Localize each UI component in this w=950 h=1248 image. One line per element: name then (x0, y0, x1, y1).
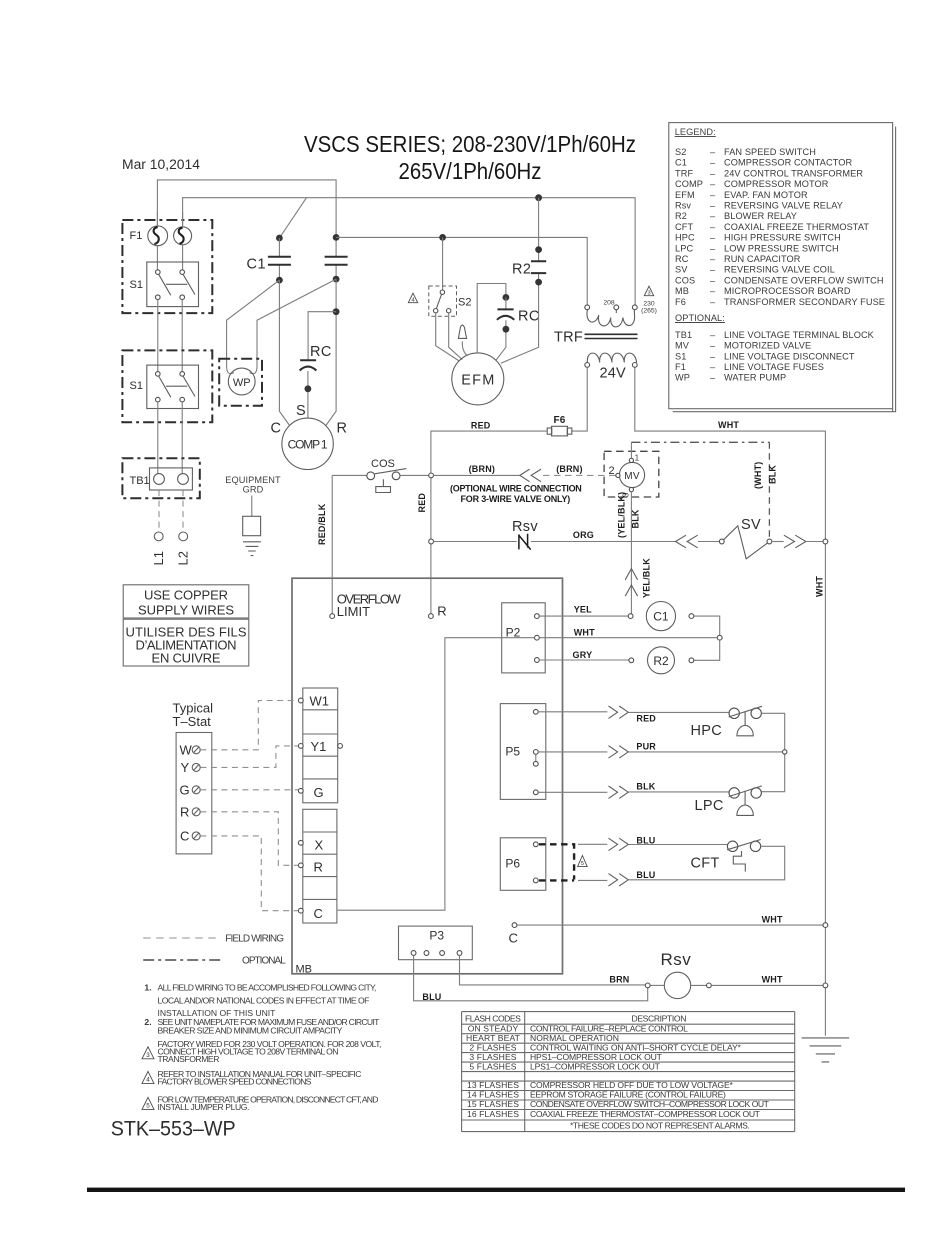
svg-text:ORG: ORG (573, 530, 594, 540)
contactor C1 pole a (268, 238, 291, 284)
transformer core (585, 334, 638, 338)
node L1 (154, 532, 163, 541)
pin P3-4 (457, 951, 462, 956)
svg-text:(BRN): (BRN) (556, 464, 583, 474)
wire ORG left (434, 541, 517, 543)
transformer TRF primary (585, 305, 637, 327)
field wire C (200, 836, 298, 911)
note triangle 5 (142, 1097, 154, 1109)
legend box (669, 123, 896, 412)
svg-text:COMP–COMPRESSOR MOTOR: COMP–COMPRESSOR MOTOR (675, 179, 829, 189)
pin P3-1 (411, 951, 416, 956)
svg-text:4: 4 (146, 1077, 150, 1084)
coil SV (724, 526, 768, 559)
node C common (512, 923, 517, 928)
node G (298, 788, 303, 793)
svg-text:265V/1Ph/60Hz: 265V/1Ph/60Hz (399, 158, 542, 184)
wire TRF secondary left to F6 (572, 367, 587, 431)
svg-text:EFM: EFM (461, 373, 494, 389)
wire L1 top run (157, 180, 336, 257)
wire C1a to COMP C (279, 280, 289, 425)
node R2 coil left (629, 658, 634, 663)
svg-text:(265): (265) (641, 308, 657, 315)
node WHT-SV junction (823, 539, 828, 544)
wire BLU2 P6 (578, 846, 785, 880)
svg-text:2.: 2. (144, 1017, 151, 1027)
svg-text:F1: F1 (130, 230, 143, 242)
svg-text:(BRN): (BRN) (469, 464, 496, 474)
water pump box (219, 359, 262, 406)
svg-text:WHT: WHT (762, 914, 783, 924)
svg-text:WP: WP (233, 377, 251, 389)
svg-text:CFT: CFT (691, 856, 720, 872)
connector P6 (500, 838, 546, 891)
note triangle 4 (142, 1071, 154, 1083)
svg-text:LPS1–COMPRESSOR LOCK OUT: LPS1–COMPRESSOR LOCK OUT (530, 1061, 661, 1071)
svg-text:BLK: BLK (768, 465, 778, 484)
connector P3 (399, 926, 473, 960)
svg-text:STK–553–WP: STK–553–WP (111, 1118, 236, 1141)
field wire W (200, 701, 298, 750)
node C1 coil right (689, 614, 694, 619)
svg-text:INSTALL JUMPER PLUG.: INSTALL JUMPER PLUG. (158, 1102, 250, 1112)
wire optional WHT dashed vertical (768, 442, 770, 539)
wire L2 fuse top (182, 212, 184, 226)
legend items (675, 147, 885, 383)
wire BLU from P3 (414, 955, 648, 1000)
utiliser des fils box (123, 619, 249, 666)
water pump WP (228, 368, 255, 395)
svg-text:5: 5 (581, 861, 584, 867)
svg-text:(YEL/BLK): (YEL/BLK) (617, 492, 627, 538)
svg-text:C: C (180, 829, 189, 844)
node R2 tap (535, 194, 542, 201)
pin P5-4 (533, 790, 538, 795)
node C1a top (276, 235, 283, 242)
connector P5 (500, 704, 546, 800)
node R2 coil right (689, 658, 694, 663)
splice arrows BLU2 (609, 874, 629, 886)
svg-text:OPTIONAL:: OPTIONAL: (675, 313, 725, 323)
wire ORG middle (531, 541, 676, 543)
wire line4 to TRF primary (336, 237, 587, 305)
terminal block TB1 (122, 458, 199, 498)
motorized valve MV (619, 462, 644, 487)
node Y1 right (338, 744, 343, 749)
wire GRY (539, 659, 629, 661)
wire EFM top to RC2 (477, 284, 506, 353)
wire WHT from P2 (539, 637, 717, 639)
svg-text:S1: S1 (130, 279, 143, 291)
field wire G (200, 789, 298, 791)
svg-text:LOCAL AND/OR NATIONAL CODES IN: LOCAL AND/OR NATIONAL CODES IN EFFECT AT… (158, 995, 370, 1005)
wire TB1 to L1 dashed (158, 490, 160, 532)
svg-text:Y1: Y1 (311, 739, 327, 754)
node Y1 left (298, 744, 303, 749)
svg-text:S: S (296, 403, 306, 419)
evaporator fan motor EFM (452, 353, 504, 405)
terminal strip lower (303, 809, 337, 923)
svg-text:BLU: BLU (422, 992, 441, 1002)
pin P2-1 (535, 614, 540, 619)
node L2 (179, 532, 188, 541)
svg-text:BREAKER SIZE AND MINIMUM CIRCU: BREAKER SIZE AND MINIMUM CIRCUIT AMPACIT… (158, 1026, 343, 1036)
node Rsv right (707, 983, 712, 988)
svg-text:EEPROM STORAGE FAILURE (CONTRO: EEPROM STORAGE FAILURE (CONTROL FAILURE) (530, 1090, 726, 1100)
coil R2 (648, 647, 675, 674)
svg-text:L1: L1 (151, 551, 166, 565)
wire to equipment ground (251, 496, 253, 517)
splice arrows YEL/BLK up (625, 569, 637, 597)
svg-text:RED/BLK: RED/BLK (317, 503, 327, 545)
svg-text:LIMIT: LIMIT (337, 604, 370, 619)
svg-text:COAXIAL FREEZE THERMOSTAT–COMP: COAXIAL FREEZE THERMOSTAT–COMPRESSOR LOC… (530, 1109, 761, 1119)
svg-text:SV: SV (741, 517, 761, 533)
note 2 (144, 1017, 380, 1035)
connector P2 (502, 603, 546, 673)
pin P5-3 stub (535, 754, 537, 761)
svg-text:R: R (314, 860, 323, 875)
equipment ground block (243, 516, 261, 535)
svg-text:FLASH CODES: FLASH CODES (465, 1014, 521, 1024)
wire F6 to RED vertical (431, 431, 547, 614)
transformer TRF secondary (585, 353, 637, 367)
svg-text:TB1: TB1 (130, 475, 150, 487)
svg-text:Mar 10,2014: Mar 10,2014 (122, 157, 200, 172)
splice arrows BLU1 (609, 838, 629, 850)
svg-text:VSCS SERIES; 208-230V/1Ph/60Hz: VSCS SERIES; 208-230V/1Ph/60Hz (304, 131, 636, 157)
field wire Y (200, 746, 298, 768)
svg-text:P3: P3 (429, 929, 444, 943)
wire TB1 to L2 dashed (182, 490, 184, 532)
svg-text:WHT: WHT (574, 628, 595, 638)
svg-text:C1: C1 (247, 257, 267, 273)
wire MV pin1 up (630, 442, 632, 458)
svg-text:GRY: GRY (573, 650, 593, 660)
wire HPC right down (761, 713, 784, 791)
wire S1 lower to TB1 left (157, 402, 159, 474)
node R terminal (429, 614, 434, 619)
svg-text:WHT: WHT (762, 974, 783, 984)
tstat terminal R (180, 805, 200, 820)
svg-text:3 FLASHES: 3 FLASHES (469, 1052, 516, 1062)
svg-text:(WHT): (WHT) (753, 462, 763, 490)
svg-text:RED: RED (471, 420, 491, 430)
wire RED/BLK to overflow limit (331, 475, 333, 613)
svg-text:5 FLASHES: 5 FLASHES (469, 1061, 516, 1071)
svg-text:C: C (271, 421, 281, 437)
condensate overflow switch COS (332, 469, 429, 493)
svg-text:RC: RC (310, 344, 332, 360)
node COS-RED junction (429, 473, 434, 478)
warning triangle 4 at S2 (408, 293, 417, 303)
svg-text:3: 3 (647, 291, 650, 297)
node Rsv left (645, 983, 650, 988)
svg-text:BLK: BLK (631, 509, 641, 528)
node C-WHT junction (823, 923, 828, 928)
svg-text:S1: S1 (130, 380, 143, 392)
thermostat box (176, 733, 212, 854)
warning triangle 5 at P6 (578, 856, 588, 868)
tstat terminal W (180, 743, 201, 758)
wire S2 left to EFM (436, 313, 460, 361)
capacitor RC fan (496, 294, 514, 360)
svg-text:ON STEADY: ON STEADY (468, 1023, 519, 1033)
pin 2 MV (616, 473, 620, 477)
field wiring key (143, 937, 218, 939)
svg-text:EQUIPMENT: EQUIPMENT (225, 475, 281, 485)
svg-text:Y: Y (181, 760, 190, 775)
note triangle 3 (142, 1047, 154, 1059)
svg-text:PUR: PUR (636, 742, 656, 752)
splice arrows RED (609, 706, 629, 718)
wire fuse F1b to S1 (182, 245, 184, 270)
node R strip (298, 863, 303, 868)
wire C1a to WP left (227, 280, 280, 374)
node C strip (298, 908, 303, 913)
svg-text:T–Stat: T–Stat (173, 714, 212, 729)
svg-text:YEL: YEL (574, 605, 592, 615)
svg-text:CONTROL FAILURE–REPLACE CONTRO: CONTROL FAILURE–REPLACE CONTROL (530, 1023, 688, 1033)
node SV right (767, 539, 772, 544)
svg-text:R: R (437, 604, 446, 619)
relay contact Rsv (519, 534, 531, 550)
pin P6-2 (533, 878, 538, 883)
wire BRN from P3 (460, 955, 646, 985)
tstat terminal C (180, 829, 200, 844)
optional key (143, 959, 222, 961)
node bridge-WHT junction (717, 635, 722, 640)
svg-text:YEL/BLK: YEL/BLK (642, 558, 652, 598)
use copper supply wires box (123, 585, 249, 618)
svg-text:15 FLASHES: 15 FLASHES (467, 1099, 519, 1109)
disconnect box F1/S1 (122, 220, 212, 313)
terminal strip upper (303, 688, 338, 803)
capacitor RC compressor (300, 312, 337, 419)
disconnect box S1 lower (122, 350, 212, 422)
wire C1 to bridge (694, 616, 720, 638)
svg-text:HPS1–COMPRESSOR LOCK OUT: HPS1–COMPRESSOR LOCK OUT (530, 1052, 663, 1062)
pin P3-3 (440, 951, 445, 956)
wire Rsv to WHT vertical (711, 984, 823, 986)
pin P3-2 (424, 951, 429, 956)
svg-text:2 FLASHES: 2 FLASHES (469, 1042, 516, 1052)
wire C1a diagonal to L2 run (279, 198, 306, 238)
svg-text:CONTROL WAITING ON ANTI–SHORT: CONTROL WAITING ON ANTI–SHORT CYCLE DELA… (530, 1042, 742, 1052)
wire BLU1 P6 (578, 843, 727, 845)
flash codes table (462, 1012, 795, 1132)
splice arrows ORG (675, 535, 697, 548)
compressor motor COMP 1 (282, 418, 333, 469)
warning triangle 3 at TRF (644, 286, 653, 296)
splice arrows WHT right (784, 535, 806, 548)
svg-text:C: C (314, 906, 323, 921)
wire PUR P5 (538, 751, 782, 753)
wire to S2 (442, 237, 444, 290)
svg-text:R: R (337, 421, 347, 437)
pin P5-1 (533, 709, 538, 714)
svg-text:R: R (180, 805, 189, 820)
node W1 (298, 698, 303, 703)
svg-text:1: 1 (635, 453, 640, 463)
relay coil Rsv (664, 972, 690, 998)
svg-text:FOR 3-WIRE VALVE ONLY): FOR 3-WIRE VALVE ONLY) (461, 494, 571, 504)
svg-text:BLU: BLU (636, 870, 655, 880)
wire MV pin3 down (630, 492, 632, 614)
ground symbol equipment (243, 542, 261, 556)
svg-text:*THESE CODES DO NOT REPRESENT: *THESE CODES DO NOT REPRESENT ALARMS. (570, 1121, 750, 1131)
pin P5-2 (533, 750, 538, 755)
svg-text:COS: COS (371, 458, 395, 470)
wire YEL (539, 615, 628, 617)
svg-text:F6: F6 (554, 415, 566, 426)
node C1 coil left (628, 614, 633, 619)
svg-text:208: 208 (603, 300, 615, 307)
freeze thermostat CFT (727, 840, 761, 872)
wire to Rsv coil (650, 984, 664, 986)
svg-text:W1: W1 (310, 694, 330, 709)
svg-text:S2: S2 (458, 297, 471, 309)
svg-text:Rsv: Rsv (512, 519, 538, 535)
switch S1 upper (147, 262, 199, 307)
svg-text:5: 5 (146, 1103, 150, 1110)
svg-text:4: 4 (411, 298, 414, 304)
bottom rule (87, 1188, 905, 1192)
svg-text:(OPTIONAL WIRE CONNECTION: (OPTIONAL WIRE CONNECTION (450, 484, 582, 494)
svg-text:WHT: WHT (718, 420, 739, 430)
svg-text:RED: RED (417, 493, 427, 513)
coil C1 (646, 602, 675, 631)
node S2 tap (439, 234, 446, 241)
node C1b top (333, 234, 340, 241)
pin P2-2 (535, 635, 540, 640)
pin 3 MV (629, 488, 633, 492)
svg-text:Rsv: Rsv (661, 950, 692, 969)
wire splice to WHT vertical (806, 541, 823, 543)
svg-text:HPC: HPC (691, 723, 723, 739)
wire optional WHT dash-dot top (631, 441, 769, 443)
tstat terminal Y (181, 760, 201, 775)
svg-text:TRF: TRF (554, 330, 583, 346)
splice arrows BLK (609, 786, 629, 798)
wire BLK P5 (538, 791, 729, 793)
svg-text:C: C (509, 931, 518, 946)
svg-text:3: 3 (146, 1052, 150, 1059)
wire optional BRN solid (434, 474, 520, 476)
node X (298, 840, 303, 845)
microprocessor board MB box (292, 578, 563, 974)
svg-text:FIELD WIRING: FIELD WIRING (225, 934, 284, 945)
pressure switch HPC (729, 706, 762, 736)
jumper plug dashed (539, 844, 574, 880)
pressure switch LPC (729, 786, 762, 816)
svg-text:RC: RC (518, 309, 540, 325)
motorized valve box (604, 451, 659, 497)
wire WHT into board (338, 638, 535, 911)
svg-text:COMP 1: COMP 1 (288, 438, 328, 452)
speed tap plug (458, 325, 466, 338)
svg-text:COMPRESSOR HELD OFF DUE TO LOW: COMPRESSOR HELD OFF DUE TO LOW VOLTAGE* (530, 1080, 734, 1090)
field wire R (200, 812, 298, 866)
wire S2 right to EFM (449, 313, 463, 360)
wire L1 fuse top (156, 212, 158, 226)
fuse F1b (174, 227, 192, 245)
wire SV to splice (772, 541, 784, 543)
svg-text:13 FLASHES: 13 FLASHES (467, 1080, 519, 1090)
svg-text:230: 230 (643, 301, 655, 308)
svg-text:C1: C1 (653, 610, 669, 624)
pin P2-3 (535, 658, 540, 663)
note 1 (144, 982, 376, 1018)
wire ORG to SV (698, 541, 720, 543)
svg-text:BRN: BRN (609, 974, 629, 984)
svg-text:P5: P5 (505, 745, 520, 759)
contactor C1 pole b (325, 257, 348, 283)
fuse F6 (547, 426, 572, 436)
svg-text:LEGEND:: LEGEND: (675, 127, 716, 137)
svg-text:NORMAL OPERATION: NORMAL OPERATION (530, 1033, 619, 1043)
wire L2 top run (183, 198, 635, 305)
svg-text:EN CUIVRE: EN CUIVRE (152, 651, 221, 666)
svg-text:DESCRIPTION: DESCRIPTION (632, 1014, 687, 1024)
speed tap arrow to EFM (462, 341, 466, 355)
svg-text:SUPPLY WIRES: SUPPLY WIRES (138, 603, 234, 618)
tstat terminal G (180, 783, 201, 798)
relay contact R2 (501, 198, 546, 364)
node ORG-RED junction (429, 539, 434, 544)
splice arrows BRN (520, 469, 541, 482)
svg-text:L2: L2 (176, 551, 191, 565)
svg-text:USE COPPER: USE COPPER (144, 588, 228, 603)
pin 1 MV (629, 458, 633, 462)
node SV left (719, 539, 724, 544)
wire TRF secondary right to WHT vertical (635, 367, 826, 1036)
node RC tap (333, 308, 340, 315)
svg-text:MB: MB (296, 964, 313, 976)
splice arrows PUR (609, 746, 629, 758)
switch S1 lower (147, 365, 199, 408)
wire C1b to COMP R (326, 279, 336, 425)
svg-text:P6: P6 (505, 857, 520, 871)
ground symbol main (802, 1038, 850, 1062)
svg-text:OPTIONAL: OPTIONAL (242, 956, 286, 967)
svg-text:1.: 1. (144, 982, 151, 992)
wire S1 upper to S1 lower right (181, 300, 183, 372)
fuse F1a (148, 226, 168, 246)
svg-text:LPC: LPC (695, 798, 724, 814)
wire S1 lower to TB1 right (181, 402, 183, 474)
wire fuse F1a to S1 (156, 246, 158, 270)
svg-text:GRD: GRD (243, 485, 264, 495)
wire S1 upper to S1 lower left (157, 300, 159, 372)
wire C common to WHT (517, 924, 823, 926)
wire optional BRN dashed (543, 474, 616, 476)
svg-text:G: G (180, 783, 190, 798)
svg-text:R2: R2 (653, 654, 669, 668)
wire RED P5 (538, 711, 729, 714)
svg-text:RED: RED (636, 714, 656, 724)
node overflow limit (330, 614, 335, 619)
svg-text:16 FLASHES: 16 FLASHES (467, 1109, 519, 1119)
wire C1b to WP right (250, 279, 336, 374)
wire bridge to R2 (694, 640, 720, 660)
fan switch S2 (429, 286, 457, 316)
svg-text:W: W (180, 743, 193, 758)
svg-text:CONDENSATE OVERFLOW SWITCH–COM: CONDENSATE OVERFLOW SWITCH–COMPRESSOR LO… (530, 1099, 770, 1109)
svg-text:BLU: BLU (636, 836, 655, 846)
svg-text:R2: R2 (512, 262, 531, 278)
svg-text:ALL FIELD WIRING TO BE ACCOMPL: ALL FIELD WIRING TO BE ACCOMPLISHED FOLL… (158, 982, 377, 992)
